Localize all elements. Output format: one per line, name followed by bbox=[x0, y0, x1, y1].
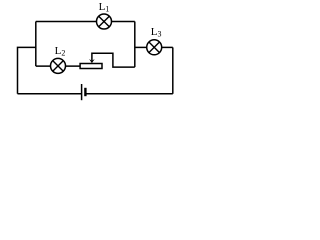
wire: left vertical branch bbox=[18, 47, 36, 93]
rheostat slider arrowhead bbox=[89, 59, 95, 63]
wire: middle vertical (node B column, L1 right to slider row) bbox=[134, 22, 136, 68]
battery: long (positive) plate bbox=[81, 84, 83, 100]
lamp L1 bbox=[97, 14, 112, 29]
svg-text:L2: L2 bbox=[55, 45, 66, 58]
battery: short thick (negative) plate bbox=[84, 88, 86, 96]
lamp L2 bbox=[51, 58, 66, 73]
wire: top (through L1) bbox=[36, 21, 135, 23]
svg-text:L1: L1 bbox=[99, 1, 110, 14]
wire: slider lead over rheostat to node B column bbox=[92, 53, 135, 67]
wire: left inner vertical (top wire to L2 row) bbox=[35, 22, 37, 67]
lamp L3 bbox=[147, 40, 162, 55]
wire: L3 right lead bbox=[162, 46, 173, 48]
wire: bottom left (battery to left corner) bbox=[18, 93, 82, 95]
wire: right vertical bbox=[172, 47, 174, 93]
rheostat R (slide box) bbox=[80, 64, 102, 69]
svg-text:L3: L3 bbox=[151, 26, 162, 39]
wire: L3 left lead from node B bbox=[135, 46, 147, 48]
wire: L2 row (through L2 to rheostat left terminal) bbox=[36, 65, 80, 67]
wire: bottom right (battery to right corner) bbox=[86, 93, 173, 95]
